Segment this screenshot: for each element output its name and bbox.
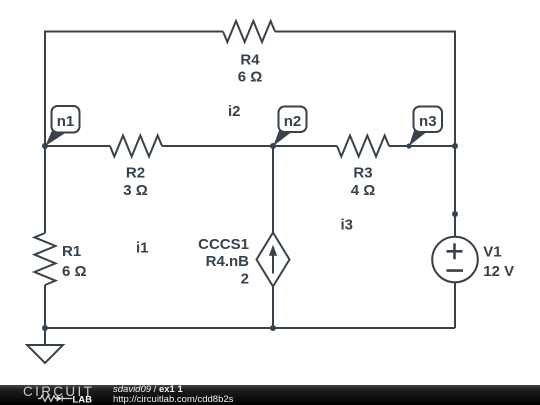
V1 minus sign bbox=[447, 269, 464, 272]
junction dot V1 top terminal bbox=[452, 211, 458, 217]
wire CCCS bottom bbox=[272, 286, 274, 328]
svg-text:LAB: LAB bbox=[73, 394, 93, 404]
wire top rail left segment bbox=[45, 32, 223, 147]
svg-text:2: 2 bbox=[241, 271, 249, 288]
svg-text:3 Ω: 3 Ω bbox=[123, 182, 148, 199]
CCCS1 arrowhead bbox=[269, 245, 277, 256]
resistor R1 bbox=[35, 233, 56, 285]
CircuitLab logo resistor-diode glyph bbox=[38, 396, 73, 402]
junction dot node n2 bbox=[270, 143, 276, 149]
node label n3 box bbox=[414, 107, 443, 133]
wire R3 to right rail bbox=[389, 145, 455, 147]
wire n2 to R3 bbox=[273, 145, 337, 147]
ground bbox=[27, 345, 63, 363]
svg-text:R4.nB: R4.nB bbox=[206, 253, 250, 270]
wire left rail lower segment bbox=[44, 285, 46, 328]
node label n3 tail bbox=[409, 131, 427, 147]
svg-text:n3: n3 bbox=[419, 113, 437, 130]
svg-text:4 Ω: 4 Ω bbox=[351, 182, 376, 199]
V1 plus sign bbox=[447, 243, 464, 270]
junction dot ground node bbox=[42, 325, 48, 331]
svg-text:6 Ω: 6 Ω bbox=[238, 69, 263, 86]
wire R2 to node n2 bbox=[162, 145, 273, 147]
svg-text:i1: i1 bbox=[136, 239, 149, 256]
svg-text:R1: R1 bbox=[62, 243, 81, 260]
svg-text:R4: R4 bbox=[240, 52, 260, 69]
resistor R3 bbox=[337, 136, 389, 157]
svg-text:i3: i3 bbox=[341, 217, 354, 234]
wire ground stub bbox=[44, 328, 46, 345]
svg-text:6 Ω: 6 Ω bbox=[62, 263, 87, 280]
junction dot node n1 bbox=[42, 143, 48, 149]
svg-text:CCCS1: CCCS1 bbox=[198, 236, 249, 253]
node label n1 tail bbox=[45, 131, 64, 147]
svg-text:i2: i2 bbox=[228, 103, 241, 120]
voltage source V1 circle bbox=[432, 237, 478, 283]
footer bar bbox=[0, 385, 540, 405]
svg-text:V1: V1 bbox=[483, 244, 501, 261]
CCCS1 diamond body bbox=[257, 233, 290, 287]
wire right rail mid segment bbox=[454, 146, 456, 237]
node label n1 box bbox=[52, 106, 80, 133]
wire bottom rail bbox=[45, 327, 455, 329]
node label n2 tail bbox=[273, 131, 291, 147]
svg-text:n1: n1 bbox=[57, 113, 75, 130]
svg-text:R3: R3 bbox=[353, 165, 372, 182]
svg-text:http://circuitlab.com/cdd8b2s: http://circuitlab.com/cdd8b2s bbox=[113, 394, 234, 405]
wire V1 bottom bbox=[454, 283, 456, 329]
node label n2 box bbox=[279, 107, 307, 133]
wire left rail mid segment bbox=[44, 146, 46, 233]
svg-text:R2: R2 bbox=[126, 165, 145, 182]
svg-text:12 V: 12 V bbox=[483, 263, 514, 280]
junction dot node n3 bbox=[406, 143, 411, 148]
junction dot right rail at R3 row bbox=[452, 143, 458, 149]
junction dot CCCS bottom bbox=[270, 325, 276, 331]
resistor R2 bbox=[110, 136, 162, 157]
wire top rail right segment bbox=[275, 32, 455, 147]
svg-text:n2: n2 bbox=[284, 113, 302, 130]
wire n1 to R2 bbox=[45, 145, 110, 147]
resistor R4 bbox=[223, 21, 275, 42]
wire CCCS top bbox=[272, 146, 274, 233]
CCCS1 arrow bbox=[272, 252, 274, 274]
